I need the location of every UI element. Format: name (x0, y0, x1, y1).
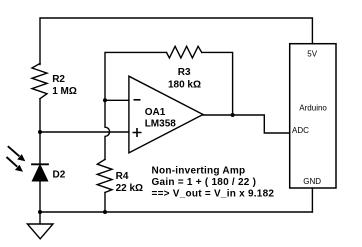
svg-text:==> V_out = V_in x 9.182: ==> V_out = V_in x 9.182 (152, 189, 275, 200)
resistor R3 (167, 46, 202, 58)
svg-text:22 kΩ: 22 kΩ (116, 183, 143, 194)
wire 5V top rail (40, 18, 312, 65)
svg-text:ADC: ADC (292, 126, 309, 135)
op-amp minus input sign (134, 99, 141, 101)
svg-text:180 kΩ: 180 kΩ (168, 80, 201, 91)
Arduino U2 box (290, 44, 336, 188)
svg-text:Gain = 1 + ( 180 / 22 ): Gain = 1 + ( 180 / 22 ) (152, 177, 257, 188)
wire photodiode to node B (39, 181, 41, 212)
photodiode D2 cathode bar (32, 163, 48, 165)
svg-text:LM358: LM358 (145, 119, 177, 130)
ground (27, 212, 53, 239)
svg-text:GND: GND (303, 177, 321, 186)
svg-text:OA1: OA1 (145, 107, 166, 118)
svg-text:Non-inverting Amp: Non-inverting Amp (152, 165, 246, 176)
wire feedback node down with hop over + input (105, 100, 110, 159)
svg-text:Arduino: Arduino (299, 104, 327, 113)
svg-text:R2: R2 (52, 74, 65, 85)
wire feedback rail left (105, 52, 167, 100)
wire R2 bottom to node A (39, 99, 41, 132)
light arrows (photodiode) (7, 146, 26, 172)
svg-text:1 MΩ: 1 MΩ (52, 86, 77, 97)
svg-text:R4: R4 (116, 171, 129, 182)
node E output/feedback junction (231, 113, 235, 117)
op-amp OA1 triangle (129, 76, 203, 153)
wire R4 bottom to node D (104, 193, 106, 213)
wire Arduino GND pin drop (311, 188, 313, 212)
wire output (203, 115, 290, 133)
wire ground rail (40, 211, 312, 213)
svg-text:R3: R3 (178, 67, 191, 78)
node D junction R4/ground rail (103, 210, 107, 214)
wire inverting input (105, 99, 129, 101)
node C inverting input junction (103, 98, 107, 102)
wire node A to photodiode (39, 132, 41, 163)
node A junction R2/D2/+input (38, 130, 42, 134)
wire feedback rail right (202, 52, 233, 115)
photodiode D2 triangle (33, 165, 48, 181)
op-amp plus input sign (133, 128, 142, 137)
resistor R4 (97, 159, 112, 192)
node B junction D2/ground rail (38, 210, 42, 214)
svg-text:D2: D2 (53, 170, 66, 181)
wire non-inverting input (40, 131, 129, 133)
svg-text:5V: 5V (307, 50, 317, 59)
resistor R2 (32, 63, 47, 98)
